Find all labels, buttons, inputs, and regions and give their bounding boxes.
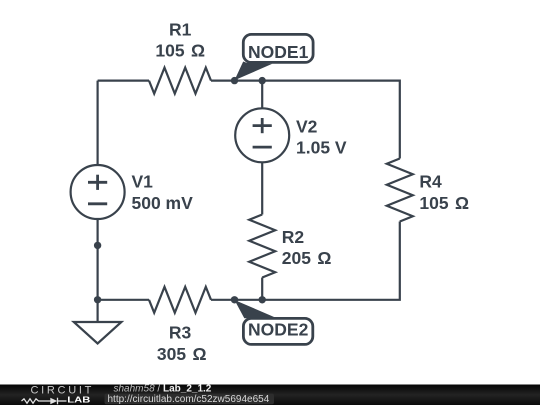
resistor R1 body bbox=[149, 68, 211, 94]
footer url highlight bbox=[105, 394, 275, 405]
junction dot on top wire at NODE1 callout bbox=[231, 77, 238, 84]
voltage source V2 symbol bbox=[235, 108, 289, 162]
junction dot on top wire at V2 branch bbox=[259, 77, 266, 84]
svg-text:NODE1: NODE1 bbox=[248, 42, 309, 62]
svg-text:R4: R4 bbox=[419, 172, 442, 192]
svg-text:105 Ω: 105 Ω bbox=[419, 193, 469, 213]
wire right vertical lower segment and bottom-right horizontal bbox=[211, 222, 400, 300]
footer bar bbox=[0, 385, 540, 406]
svg-text:V1: V1 bbox=[132, 172, 154, 192]
svg-text:LAB: LAB bbox=[67, 396, 90, 405]
svg-text:NODE2: NODE2 bbox=[248, 320, 309, 340]
wire left vertical lower segment to ground bbox=[96, 219, 98, 322]
ground symbol bbox=[74, 322, 122, 344]
svg-text:R2: R2 bbox=[282, 227, 305, 247]
junction dot on bottom wire at NODE2 callout bbox=[231, 296, 238, 303]
voltage source V1 symbol bbox=[71, 165, 125, 219]
resistor R2 body bbox=[249, 215, 275, 278]
svg-text:V2: V2 bbox=[296, 116, 318, 136]
wire R2 bottom stub bbox=[261, 278, 263, 300]
node NODE2 label box bbox=[235, 300, 313, 344]
wire left vertical upper segment bbox=[96, 81, 98, 165]
svg-text:http://circuitlab.com/c52zw569: http://circuitlab.com/c52zw5694e654 bbox=[108, 394, 270, 405]
svg-text:R3: R3 bbox=[169, 323, 192, 343]
wire V2 to R2 segment bbox=[261, 162, 263, 214]
svg-text:500 mV: 500 mV bbox=[132, 193, 194, 213]
svg-text:shahm58 / Lab_2_1.2: shahm58 / Lab_2_1.2 bbox=[114, 383, 212, 394]
wire bottom-left horizontal segment bbox=[98, 299, 149, 301]
junction dot on bottom wire at R2 branch bbox=[259, 296, 266, 303]
svg-text:105 Ω: 105 Ω bbox=[155, 41, 205, 61]
node NODE1 label box bbox=[235, 34, 314, 80]
resistor R4 body bbox=[387, 159, 413, 222]
junction dot on left wire below V1 bbox=[94, 242, 101, 249]
svg-text:CIRCUIT: CIRCUIT bbox=[31, 385, 95, 397]
svg-text:1.05 V: 1.05 V bbox=[296, 138, 347, 158]
junction dot at ground tee bbox=[94, 296, 101, 303]
wire top-left horizontal segment bbox=[98, 79, 149, 81]
resistor R3 body bbox=[149, 287, 211, 313]
wire V2 branch top stub bbox=[261, 81, 263, 109]
svg-text:205 Ω: 205 Ω bbox=[282, 248, 332, 268]
wire top-right horizontal and right vertical upper segment bbox=[211, 81, 400, 159]
footer logo schematic squiggle (resistor and diode) bbox=[22, 398, 67, 405]
svg-text:R1: R1 bbox=[169, 19, 192, 39]
svg-text:305 Ω: 305 Ω bbox=[157, 344, 207, 364]
